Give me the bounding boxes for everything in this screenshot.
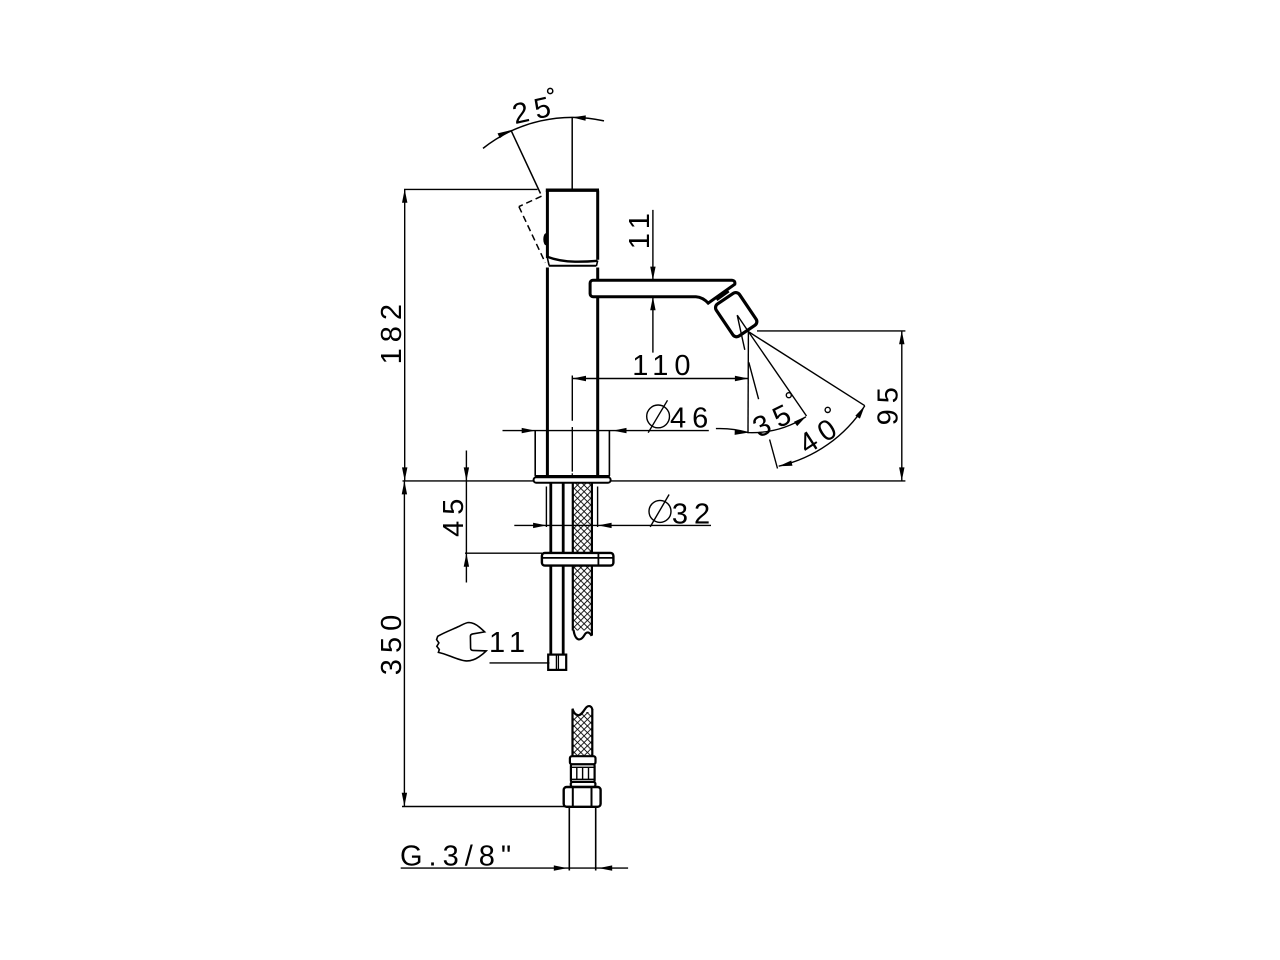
threaded rod bbox=[551, 483, 563, 655]
svg-text:182: 182 bbox=[376, 298, 408, 364]
G3/8 pipe bbox=[569, 807, 595, 871]
base flange bbox=[535, 430, 609, 476]
hose lower collar bbox=[571, 782, 596, 787]
upper hose (hatched) bbox=[573, 483, 592, 631]
dashed handle overlap lens bbox=[543, 233, 548, 245]
hex end of rod bbox=[548, 655, 566, 670]
degree circle of 40 bbox=[825, 407, 830, 412]
dimension dia46 bbox=[503, 430, 709, 432]
arrow at 40 arc left end bbox=[778, 461, 792, 469]
spray line vertical bbox=[747, 332, 749, 434]
dimension 182 bbox=[404, 189, 406, 481]
arrow at 35 arc end bbox=[794, 414, 808, 426]
spout bbox=[590, 280, 735, 303]
leader line for wrench 11 bbox=[490, 662, 550, 664]
dimension 11 spout bbox=[652, 210, 654, 353]
arrow on 25 arc right bbox=[572, 115, 586, 121]
deck line bbox=[403, 480, 906, 482]
dimension 45 bbox=[465, 451, 467, 583]
25 degree vertical axis line bbox=[571, 117, 573, 188]
40 arc bbox=[779, 406, 865, 467]
svg-text:350: 350 bbox=[376, 609, 408, 675]
degree circle of 35 bbox=[786, 393, 791, 398]
hose collar bbox=[570, 756, 596, 764]
svg-text:45: 45 bbox=[438, 493, 470, 537]
svg-text:95: 95 bbox=[873, 381, 905, 425]
arrow at 35 arc on vertical line bbox=[735, 429, 749, 435]
faucet body column bbox=[547, 268, 597, 477]
arrow at 40 arc right end bbox=[855, 404, 867, 418]
svg-text:G.3/8": G.3/8" bbox=[400, 841, 517, 873]
spray line 40 bbox=[748, 332, 864, 406]
radial tick at 40 arc left end bbox=[770, 440, 778, 469]
hose crimp section bbox=[571, 764, 595, 782]
svg-text:110: 110 bbox=[632, 350, 696, 382]
hose hex nut bbox=[564, 787, 601, 807]
handle rotated 25 dashed outline bbox=[519, 196, 545, 263]
degree circle of 25 bbox=[548, 88, 553, 93]
mounting nut bbox=[542, 553, 614, 566]
dimension dia32 bbox=[514, 524, 711, 526]
35 arc bbox=[716, 417, 806, 433]
svg-text:46: 46 bbox=[670, 403, 714, 435]
svg-text:11: 11 bbox=[624, 207, 656, 249]
base plate bbox=[534, 477, 611, 482]
upper hose break wavy bbox=[574, 630, 592, 640]
dimension 95 bbox=[901, 331, 903, 481]
faucet handle bbox=[546, 190, 599, 266]
wrench icon bbox=[437, 623, 487, 661]
svg-text:32: 32 bbox=[672, 499, 716, 531]
dimension 350 bbox=[403, 481, 405, 806]
25 degree arc bbox=[483, 117, 604, 148]
center line bbox=[571, 376, 573, 475]
spray line 35 bbox=[748, 332, 806, 416]
svg-text:11: 11 bbox=[489, 627, 531, 659]
dia32 extension lines bbox=[546, 487, 597, 528]
aerator head bbox=[714, 291, 759, 339]
25 degree tilted axis line bbox=[511, 130, 541, 193]
arrow on 25 arc left bbox=[498, 128, 513, 139]
spray guide V lines bbox=[737, 315, 758, 399]
dimension G3/8 bbox=[401, 867, 628, 869]
lower hose assembly bbox=[573, 712, 592, 756]
spout aerator groove line bbox=[717, 291, 729, 300]
dimension 110 bbox=[573, 378, 749, 380]
